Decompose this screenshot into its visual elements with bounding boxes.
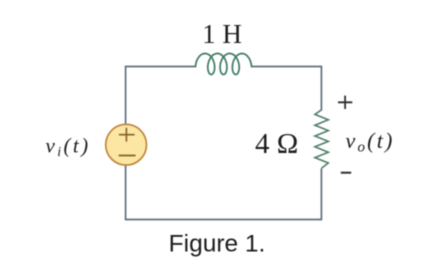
svg-text:vi(t): vi(t): [46, 134, 91, 161]
wire: right vertical lower (resistor to bottom corner): [320, 169, 322, 221]
svg-text:vo(t): vo(t): [346, 128, 395, 156]
wire: left vertical upper (corner to source): [125, 66, 127, 124]
voltage source minus sign: [119, 155, 136, 157]
wire: left vertical lower (source to bottom corner): [125, 166, 127, 221]
resistor R1 zigzag: [315, 110, 328, 168]
wire: right vertical upper (corner to resistor): [320, 66, 322, 111]
voltage source Vs circle: [106, 124, 147, 165]
svg-text:Figure 1.: Figure 1.: [169, 231, 266, 258]
inductor L1 coil: [196, 54, 252, 75]
voltage source plus sign: [119, 128, 135, 142]
wire: inductor to top-right corner: [252, 66, 322, 68]
output polarity plus: [338, 96, 352, 109]
wire: top-left segment to inductor: [126, 66, 196, 68]
svg-text:4 Ω: 4 Ω: [255, 128, 298, 160]
output polarity minus: [341, 172, 351, 174]
wire: bottom horizontal: [126, 219, 322, 221]
svg-text:1 H: 1 H: [202, 19, 242, 49]
